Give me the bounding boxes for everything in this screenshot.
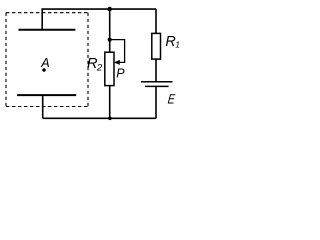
svg-text:P: P <box>116 66 125 80</box>
svg-text:2: 2 <box>96 62 103 73</box>
svg-text:R: R <box>165 34 175 50</box>
svg-text:A: A <box>40 56 49 70</box>
svg-text:1: 1 <box>175 40 180 50</box>
